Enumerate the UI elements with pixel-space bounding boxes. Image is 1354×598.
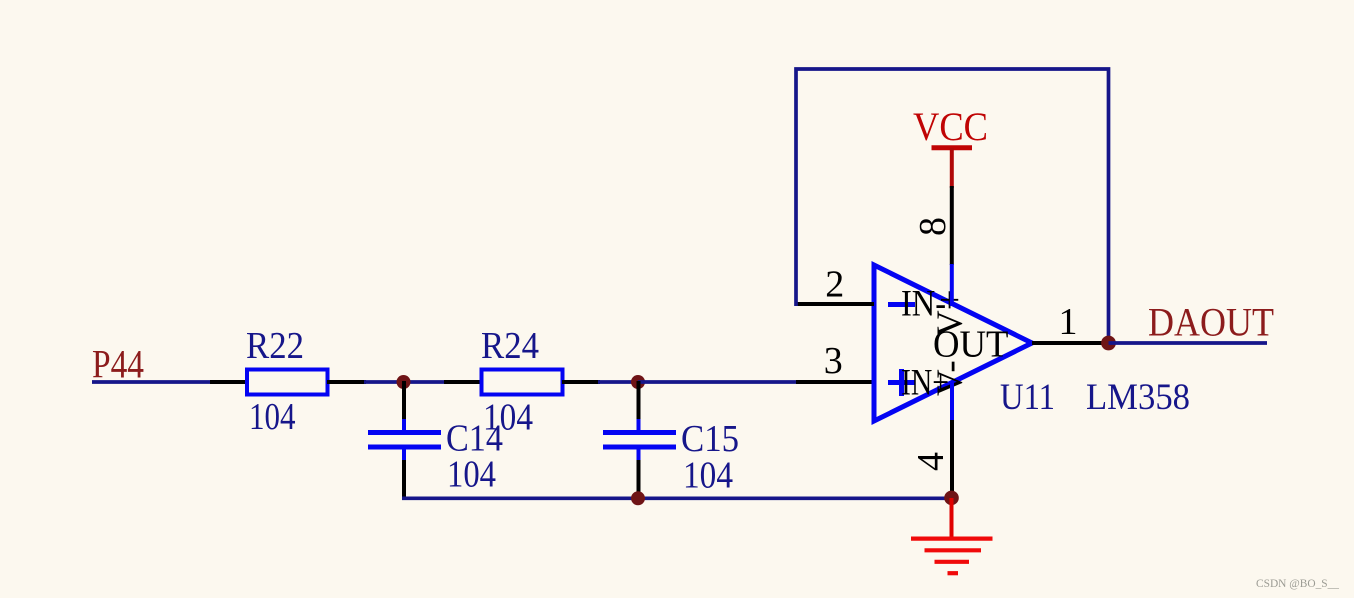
op-amp U11 inverting input marker	[888, 302, 915, 307]
svg-text:104: 104	[249, 396, 296, 438]
svg-text:U11: U11	[1000, 377, 1055, 418]
capacitor C14	[368, 433, 441, 448]
op-amp U11 pin 8	[950, 186, 954, 265]
resistor R24 right pin	[562, 380, 600, 384]
svg-text:LM358: LM358	[1086, 377, 1190, 418]
op-amp U11 pin 2	[795, 302, 874, 306]
junction node B	[631, 375, 645, 389]
bottom ground rail wire	[402, 496, 953, 500]
wire R24 to node B	[598, 380, 640, 384]
resistor R22	[247, 370, 328, 395]
capacitor C15 bottom pin	[637, 460, 641, 500]
VCC stub	[950, 148, 954, 188]
junction node ground	[944, 491, 959, 506]
svg-text:2: 2	[825, 264, 844, 306]
svg-text:104: 104	[683, 455, 733, 497]
capacitor C14 top pin	[402, 381, 406, 420]
junction node A	[397, 375, 411, 389]
op-amp U11 pin 4 inner lead	[950, 382, 954, 421]
capacitor C15	[603, 433, 676, 448]
wire to DAOUT	[1109, 341, 1268, 345]
op-amp U11 pin 8 inner lead	[950, 264, 954, 306]
svg-text:8: 8	[912, 217, 954, 236]
resistor R24	[482, 370, 563, 395]
capacitor C15 top lead	[637, 419, 641, 431]
resistor R22 left pin	[210, 380, 248, 384]
wire P44 to R22	[92, 380, 212, 384]
VCC power bar	[932, 145, 973, 150]
op-amp U11 pin 1	[1032, 341, 1108, 345]
svg-text:VCC: VCC	[913, 104, 988, 149]
capacitor C15 bottom lead	[637, 448, 641, 461]
feedback wire output to pin 2	[796, 69, 1109, 343]
svg-text:P44: P44	[92, 342, 144, 387]
svg-text:R24: R24	[481, 325, 539, 367]
capacitor C14 bottom pin	[402, 460, 406, 500]
wire R22 to node A	[364, 380, 446, 384]
capacitor C15 top pin	[637, 381, 641, 420]
junction node DAOUT	[1101, 336, 1116, 351]
svg-text:CSDN @BO_S__: CSDN @BO_S__	[1256, 576, 1340, 590]
svg-text:104: 104	[447, 454, 496, 496]
resistor R24 left pin	[444, 380, 482, 384]
op-amp U11 pin 4	[950, 420, 954, 499]
capacitor C14 top lead	[402, 419, 406, 431]
op-amp U11 non-inverting input marker	[888, 369, 915, 396]
svg-text:1: 1	[1059, 301, 1078, 343]
svg-text:DAOUT: DAOUT	[1148, 300, 1274, 345]
op-amp U11 pin 3	[796, 380, 874, 384]
svg-text:4: 4	[910, 452, 952, 471]
junction node C on ground rail	[631, 491, 645, 505]
svg-text:R22: R22	[246, 325, 304, 367]
resistor R22 right pin	[327, 380, 366, 384]
capacitor C14 bottom lead	[402, 448, 406, 461]
wire node B to op-amp pin 3	[638, 380, 797, 384]
op-amp U11	[874, 265, 1032, 421]
ground symbol	[911, 539, 993, 574]
ground stub	[950, 498, 954, 537]
svg-text:3: 3	[824, 340, 843, 382]
